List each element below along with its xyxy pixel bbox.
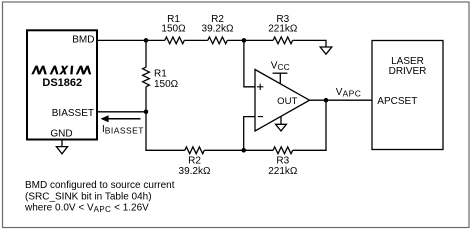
IC U1 DS1862 box <box>27 30 97 139</box>
wire junction C down to op-amp + input <box>244 40 255 86</box>
svg-text:OUT: OUT <box>277 96 297 107</box>
junction C <box>242 38 247 43</box>
svg-text:GND: GND <box>50 128 72 139</box>
svg-text:where 0.0V < VAPC < 1.26V: where 0.0V < VAPC < 1.26V <box>24 202 149 214</box>
svg-text:VAPC: VAPC <box>336 87 362 99</box>
op-amp - input mark <box>258 116 263 118</box>
svg-text:APCSET: APCSET <box>377 96 417 107</box>
wire junction B down to bottom rail <box>146 112 185 151</box>
laser driver box <box>372 41 443 150</box>
svg-text:221kΩ: 221kΩ <box>268 166 298 177</box>
resistor R1 (top horizontal) <box>165 37 185 44</box>
current arrow IBIASSET <box>100 115 140 122</box>
wire R2 bottom to junction D to R3 bottom <box>204 149 273 151</box>
ground top right <box>320 47 332 54</box>
svg-text:150Ω: 150Ω <box>161 24 186 35</box>
svg-text:39.2kΩ: 39.2kΩ <box>202 24 234 35</box>
junction D <box>241 148 246 153</box>
wire R1 vertical to junction B <box>145 87 147 112</box>
svg-text:BMD configured to source curre: BMD configured to source current <box>25 180 175 191</box>
junction A <box>144 38 149 43</box>
wire BMD pin to junction A to R1 <box>97 39 165 41</box>
svg-text:150Ω: 150Ω <box>154 79 179 90</box>
wire R3 bottom up to output node <box>293 100 326 150</box>
ground under DS1862 <box>56 140 67 153</box>
wire junction A down to R1 vertical <box>145 40 147 67</box>
op-amp + input mark <box>257 84 263 90</box>
svg-text:(SRC_SINK bit in Table 04h): (SRC_SINK bit in Table 04h) <box>25 191 152 202</box>
wire op-amp output to APCSET <box>310 99 373 101</box>
svg-text:IBIASSET: IBIASSET <box>102 124 144 136</box>
svg-text:DS1862: DS1862 <box>42 77 82 89</box>
VCC supply stem <box>279 73 281 84</box>
ground under op-amp <box>276 124 287 131</box>
svg-text:R1: R1 <box>154 68 167 79</box>
VCC supply bar <box>273 72 288 74</box>
wire junction D up to op-amp - input <box>244 117 255 151</box>
svg-text:R2: R2 <box>188 155 201 166</box>
resistor R3 (top horizontal) <box>273 37 293 44</box>
resistor R1 (vertical) <box>143 67 150 87</box>
node VAPC <box>324 98 329 103</box>
op-amp U1 <box>255 70 310 132</box>
svg-text:DRIVER: DRIVER <box>389 66 427 77</box>
resistor R2 (top horizontal) <box>208 37 228 44</box>
svg-text:39.2kΩ: 39.2kΩ <box>179 166 211 177</box>
resistor R2 (bottom horizontal) <box>185 147 205 154</box>
svg-text:R3: R3 <box>276 155 289 166</box>
svg-text:221kΩ: 221kΩ <box>268 24 298 35</box>
svg-text:BMD: BMD <box>72 35 94 46</box>
wire BIASSET pin to junction B <box>97 111 146 113</box>
junction B <box>144 110 149 115</box>
svg-text:VCC: VCC <box>271 61 290 72</box>
wire R2 to junction C to R3 <box>227 39 273 41</box>
op-amp ground stem <box>280 116 282 124</box>
MAXIM logo <box>31 66 91 75</box>
svg-text:BIASSET: BIASSET <box>52 108 94 119</box>
wire R3 to ground corner <box>293 40 326 47</box>
resistor R3 (bottom horizontal) <box>273 147 293 154</box>
wire R1 to R2 <box>184 39 208 41</box>
